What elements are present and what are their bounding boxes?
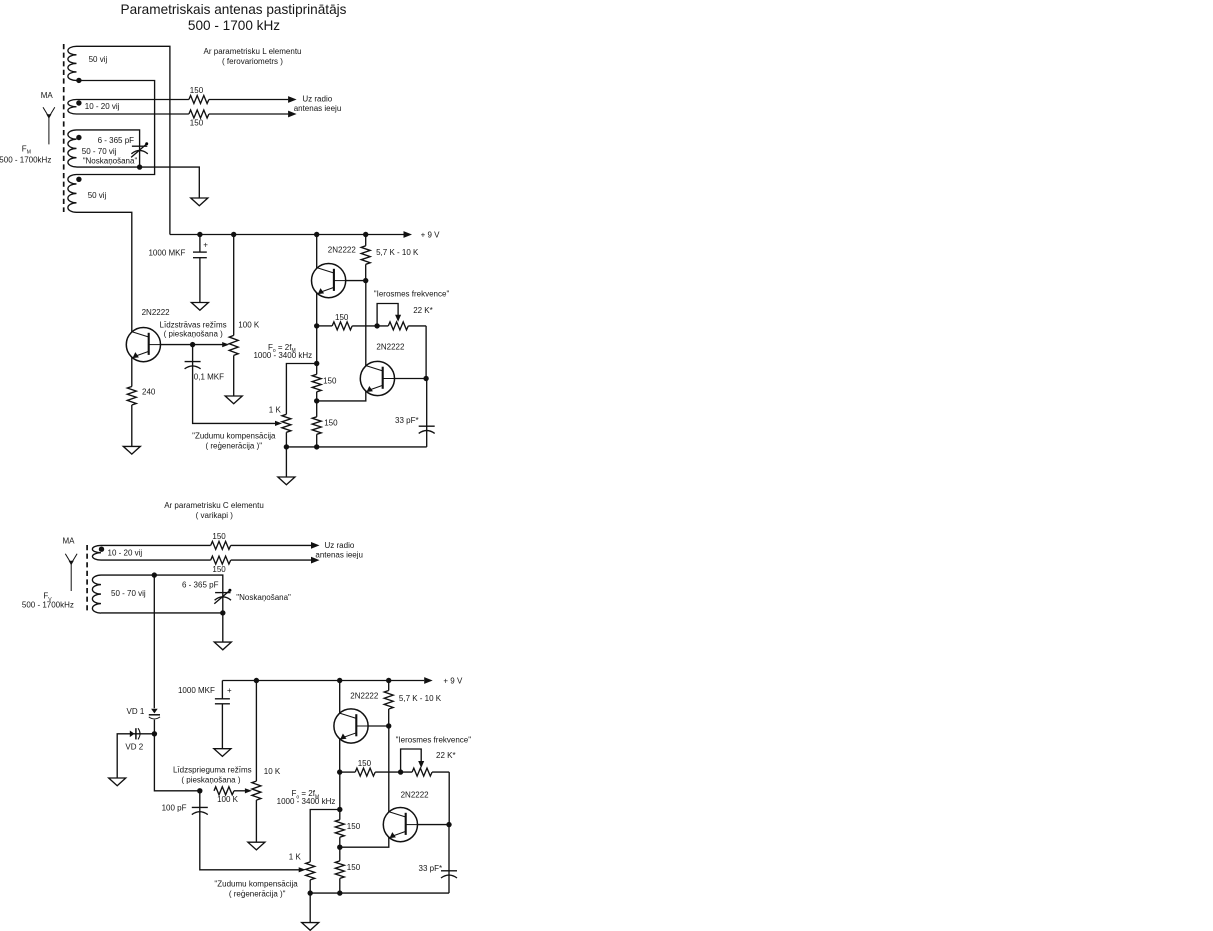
node rail/R15 — [386, 678, 391, 683]
resistor R9 150 — [312, 374, 321, 391]
wire R20 down — [339, 878, 341, 893]
wire L6 top to C5 — [101, 575, 223, 613]
node Q2 base / Q3 collector — [363, 278, 368, 283]
resistor R1 150 — [189, 96, 209, 104]
wire node to C3 — [192, 345, 194, 362]
node Q4 base / Q5 collector — [386, 723, 391, 728]
wire F0 node to R18 — [310, 810, 340, 862]
transistor Q2 2N2222 — [312, 264, 346, 298]
svg-text:500 - 1700 kHz: 500 - 1700 kHz — [188, 18, 280, 33]
capacitor C4 33pF — [419, 426, 435, 433]
wire to ground (top circuit) — [285, 447, 287, 477]
potentiometer R3 100K — [229, 335, 238, 355]
node R7 bottom — [284, 444, 289, 449]
node R18 bottom — [308, 890, 313, 895]
wire Q3 base to C4 — [426, 379, 428, 427]
svg-text:VD 2: VD 2 — [125, 743, 143, 752]
wire R9 to R10 — [316, 392, 318, 417]
wire to ground (C5) — [222, 613, 224, 642]
wire rail to R5 — [365, 235, 367, 246]
wire across R17 — [401, 771, 450, 773]
node rail/R3 — [231, 232, 236, 237]
svg-text:150: 150 — [212, 565, 226, 574]
wiper arrow R3 — [222, 342, 229, 347]
resistor R16 150 — [355, 768, 375, 776]
svg-text:50 - 70 vij: 50 - 70 vij — [111, 589, 146, 598]
wire +9V rail (top circuit) — [170, 234, 404, 236]
svg-text:0,1 MKF: 0,1 MKF — [194, 373, 224, 382]
svg-text:150: 150 — [323, 376, 337, 385]
varicap diode VD1 — [149, 709, 160, 719]
svg-text:antenas ieeju: antenas ieeju — [294, 104, 342, 113]
wire Q4 emitter down — [339, 738, 341, 772]
wire R6 to R8 — [352, 325, 377, 327]
antenna MA bottom — [65, 554, 77, 591]
node C1/L3 — [137, 164, 142, 169]
svg-text:150: 150 — [358, 759, 372, 768]
wire Q5 base to C8 — [448, 825, 450, 871]
node rail/Q2 — [314, 232, 319, 237]
svg-text:MA: MA — [41, 91, 54, 100]
svg-text:1000 - 3400 kHz: 1000 - 3400 kHz — [253, 351, 312, 360]
output arrow 3 — [311, 542, 320, 549]
node 100pF/R13 — [197, 788, 202, 793]
wire L3 top to C1 — [77, 130, 140, 167]
svg-text:2N2222: 2N2222 — [328, 245, 357, 254]
svg-text:2N2222: 2N2222 — [401, 790, 430, 799]
svg-text:Uz radio: Uz radio — [325, 541, 355, 550]
wire R14 to ground — [255, 800, 257, 842]
wire L1 top to +9V rail corner — [77, 46, 170, 234]
svg-text:"Ierosmes frekvence": "Ierosmes frekvence" — [396, 736, 472, 745]
varicap diode VD2 — [130, 728, 140, 739]
wire rail to R3 — [233, 235, 235, 336]
svg-text:500 - 1700kHz: 500 - 1700kHz — [0, 155, 51, 164]
wire L2 top to R1 — [77, 99, 189, 101]
ground (R14) — [248, 842, 265, 850]
svg-text:Ar parametrisku L elementu: Ar parametrisku L elementu — [204, 47, 302, 56]
wiper arrow R14 — [245, 788, 252, 793]
capacitor C2 1000 MKF — [193, 252, 207, 258]
phase dot L2 — [76, 100, 81, 105]
wire bottom node line (bottom circuit) — [310, 892, 449, 894]
node R10 bottom — [314, 444, 319, 449]
svg-text:50 - 70 vij: 50 - 70 vij — [82, 147, 117, 156]
svg-text:+: + — [227, 686, 232, 695]
ground (C5) — [214, 642, 231, 650]
inductor L3 winding 50-70 vij — [68, 130, 77, 167]
potentiometer R18 1K — [306, 862, 315, 880]
transformer T1 core — [63, 44, 65, 212]
svg-text:22 K*: 22 K* — [436, 751, 456, 760]
svg-text:( reģenerācija )": ( reģenerācija )" — [205, 441, 262, 450]
wire rail to R14 — [255, 681, 257, 782]
ground (C6) — [214, 749, 231, 757]
ground (R4) — [123, 446, 140, 454]
svg-text:150: 150 — [324, 419, 338, 428]
svg-text:Līdzsprieguma režīms: Līdzsprieguma režīms — [173, 766, 252, 775]
inductor L4 winding 50 vij — [68, 175, 77, 213]
variable capacitor C5 6-365pF — [214, 589, 231, 604]
node R8 left — [374, 323, 379, 328]
wire R10 down — [316, 434, 318, 447]
svg-text:Parametriskais antenas pastipr: Parametriskais antenas pastiprinātājs — [121, 2, 347, 17]
svg-text:500 - 1700kHz: 500 - 1700kHz — [22, 601, 74, 610]
node Q4 emitter — [337, 769, 342, 774]
wire to R6 — [317, 325, 333, 327]
svg-text:22 K*: 22 K* — [413, 306, 433, 315]
node F0 (bottom) — [337, 807, 342, 812]
svg-text:5,7 K - 10 K: 5,7 K - 10 K — [376, 248, 419, 257]
capacitor C3 0,1 MKF — [185, 362, 201, 369]
svg-text:150: 150 — [190, 86, 204, 95]
resistor R15 5,7K-10K — [384, 691, 393, 709]
svg-text:150: 150 — [212, 532, 226, 541]
wire rail to R15 — [388, 681, 390, 691]
resistor R10 150 — [312, 417, 321, 434]
svg-text:1000 - 3400 kHz: 1000 - 3400 kHz — [277, 797, 336, 806]
resistor R12 150 — [211, 556, 231, 564]
wire L5 bottom to R12 — [101, 559, 211, 561]
wire R3 to ground — [233, 355, 235, 396]
wire C6 to ground — [221, 704, 223, 749]
wire R15 to Q4 base node — [388, 709, 390, 726]
node rail/R5 — [363, 232, 368, 237]
wire rail to Q4 collector — [339, 681, 341, 714]
wire R1 to output arrow 1 — [209, 99, 288, 101]
wire F0 node to R7 — [286, 364, 316, 415]
wire Q5 emitter down-left — [340, 837, 389, 847]
wire C7 to R18 wiper — [200, 812, 299, 870]
node Q5 emitter — [337, 845, 342, 850]
node rail/C2 — [197, 232, 202, 237]
wire Q5 base to node — [417, 824, 449, 826]
potentiometer R8 22K — [388, 322, 408, 330]
transformer T2 core — [86, 545, 88, 614]
svg-text:2N2222: 2N2222 — [376, 343, 405, 352]
output arrow 2 — [288, 111, 297, 118]
wire rail corner to C6 — [221, 681, 223, 699]
phase dot L5 — [99, 547, 104, 552]
svg-text:( pieskaņošana ): ( pieskaņošana ) — [181, 775, 240, 784]
svg-text:"Zudumu kompensācija: "Zudumu kompensācija — [214, 879, 298, 888]
wiper arrow R7 — [275, 421, 282, 426]
resistor R5 5,7K-10K — [361, 246, 370, 265]
wire L6 to VD1 — [153, 575, 155, 708]
inductor L1 winding 50 vij — [68, 46, 77, 80]
svg-text:10 K: 10 K — [264, 767, 281, 776]
wire C3 to R7 wiper — [193, 366, 276, 424]
wire R12 to output arrow 4 — [231, 559, 312, 561]
capacitor C7 100 pF — [192, 807, 208, 814]
wire L4 bottom to Q1 collector — [77, 212, 132, 332]
svg-text:100 K: 100 K — [217, 795, 239, 804]
capacitor C8 33pF — [441, 871, 457, 878]
svg-text:50 vij: 50 vij — [89, 55, 108, 64]
wire to ground (bottom circuit) — [309, 893, 311, 923]
wire +9V rail (bottom circuit) — [222, 680, 424, 682]
node VD1/VD2 — [152, 731, 157, 736]
wire Q3 base to node — [394, 378, 426, 380]
resistor R11 150 — [211, 541, 231, 549]
wire C2 to ground — [199, 258, 201, 303]
node Q1 base — [190, 342, 195, 347]
svg-text:100 K: 100 K — [238, 321, 260, 330]
svg-text:1 K: 1 K — [269, 406, 282, 415]
svg-text:150: 150 — [347, 863, 361, 872]
ground (C1) — [191, 198, 208, 206]
wire Q3 collector up to Q2 base — [365, 281, 367, 367]
wire rail to Q2 collector — [316, 235, 318, 269]
wire R18 down — [309, 880, 311, 893]
wire R5 to Q2 base node — [365, 264, 367, 280]
svg-text:"Noskaņošana": "Noskaņošana" — [236, 593, 291, 602]
svg-text:Uz radio: Uz radio — [302, 95, 332, 104]
resistor R2 150 — [189, 110, 209, 118]
node Q3 base — [423, 376, 428, 381]
node Q3 emitter — [314, 398, 319, 403]
wire Q4 base — [368, 725, 389, 727]
svg-text:100 pF: 100 pF — [162, 804, 187, 813]
node Q2 emitter — [314, 323, 319, 328]
wire R7 down — [285, 432, 287, 447]
wiper arrow R18 — [299, 867, 306, 872]
wire L6 bottom — [101, 612, 223, 614]
svg-text:( varikapi ): ( varikapi ) — [196, 511, 234, 520]
arrow +9V (bottom) — [424, 677, 433, 684]
wire bottom node line (top circuit) — [286, 446, 426, 448]
wire C8 to bottom line — [448, 875, 450, 893]
variable capacitor C1 6-365pF — [131, 142, 148, 157]
svg-text:VD 1: VD 1 — [127, 707, 145, 716]
svg-text:( pieskaņošana ): ( pieskaņošana ) — [164, 330, 223, 339]
svg-text:2N2222: 2N2222 — [350, 692, 379, 701]
svg-text:240: 240 — [142, 387, 156, 396]
wire VD1 to node, corner to R13 — [154, 720, 199, 791]
node C5/L6 — [220, 610, 225, 615]
wire R19 to R20 — [339, 837, 341, 861]
svg-text:33 pF*: 33 pF* — [419, 864, 443, 873]
node rail/Q4 — [337, 678, 342, 683]
svg-text:( ferovariometrs ): ( ferovariometrs ) — [222, 57, 283, 66]
wire node to C7 — [199, 791, 201, 808]
resistor R20 150 — [335, 861, 344, 879]
wire R16 to R17 — [375, 771, 400, 773]
svg-text:"Zudumu kompensācija: "Zudumu kompensācija — [192, 431, 276, 440]
wire R8 wiper loop — [377, 304, 398, 326]
wire Q1 base — [160, 344, 193, 346]
output arrow 4 — [311, 557, 320, 564]
ground (R3) — [225, 396, 242, 404]
wire rail to C2 — [199, 235, 201, 253]
inductor L6 winding 50-70 vij — [92, 575, 101, 613]
wire L3 bottom to ground — [77, 167, 200, 198]
wire Q1 emitter to R4 — [131, 357, 133, 387]
potentiometer R17 22K — [412, 768, 432, 776]
svg-text:Ar parametrisku C elementu: Ar parametrisku C elementu — [164, 501, 264, 510]
wire to R9 — [316, 326, 318, 374]
wire Q2 base — [345, 280, 366, 282]
node F0 (top) — [314, 361, 319, 366]
svg-text:1000 MKF: 1000 MKF — [178, 686, 215, 695]
transistor Q4 2N2222 — [334, 709, 368, 743]
wire R11 to output arrow 3 — [231, 544, 312, 546]
wiper arrow R17 — [418, 761, 424, 768]
phase dot L4 — [76, 177, 81, 182]
potentiometer R14 10K — [252, 781, 261, 800]
resistor R4 240 — [127, 387, 136, 406]
resistor R13 100K — [214, 787, 234, 795]
wire R17 right to Q5 base — [448, 772, 450, 825]
output arrow 1 — [288, 96, 297, 103]
ground (bottom circuit) — [302, 923, 319, 931]
svg-text:33 pF*: 33 pF* — [395, 416, 419, 425]
capacitor C6 1000 MKF — [215, 699, 230, 704]
transistor Q5 2N2222 — [383, 808, 417, 842]
svg-text:"Noskaņošana": "Noskaņošana" — [83, 157, 138, 166]
svg-text:+ 9 V: + 9 V — [421, 230, 441, 239]
inductor L2 winding 10-20 vij — [68, 100, 77, 115]
svg-text:( reģenerācija )": ( reģenerācija )" — [229, 889, 286, 898]
svg-text:MA: MA — [63, 537, 76, 546]
wire C4 to bottom line — [426, 431, 428, 447]
svg-text:10 - 20 vij: 10 - 20 vij — [108, 548, 143, 557]
wire to R19 — [339, 772, 341, 820]
svg-text:50 vij: 50 vij — [88, 191, 107, 200]
potentiometer R7 1K — [282, 414, 291, 432]
phase dot L3 — [76, 135, 81, 140]
wire L1 bottom to L4 top — [77, 81, 155, 175]
svg-text:2N2222: 2N2222 — [142, 308, 171, 317]
wire R13 to R17 wiper — [234, 790, 245, 792]
svg-text:1000 MKF: 1000 MKF — [148, 248, 185, 257]
ground (C2) — [191, 303, 208, 311]
wire R17 wiper loop — [401, 749, 422, 772]
node R17 left — [398, 769, 403, 774]
svg-text:150: 150 — [347, 822, 361, 831]
svg-text:10 - 20 vij: 10 - 20 vij — [85, 102, 120, 111]
svg-text:Līdzstrāvas režīms: Līdzstrāvas režīms — [160, 321, 227, 330]
wire across R8 — [377, 325, 426, 327]
inductor L5 winding 10-20 vij — [92, 545, 101, 560]
ground (VD2) — [109, 778, 126, 786]
wire L2 bottom to R2 — [77, 113, 189, 115]
svg-text:6 - 365 pF: 6 - 365 pF — [182, 580, 219, 589]
svg-text:6 - 365 pF: 6 - 365 pF — [98, 136, 135, 145]
svg-text:"Ierosmes frekvence": "Ierosmes frekvence" — [374, 290, 450, 299]
wire R4 to ground — [131, 405, 133, 446]
ground (top circuit bottom) — [278, 477, 295, 485]
svg-text:+ 9 V: + 9 V — [443, 677, 463, 686]
wire VD2 to ground — [117, 734, 154, 778]
transistor Q3 2N2222 — [360, 361, 394, 395]
svg-text:1 K: 1 K — [289, 852, 302, 861]
resistor R6 150 — [332, 322, 352, 330]
svg-text:150: 150 — [335, 313, 349, 322]
antenna MA top — [43, 107, 55, 144]
transistor Q1 2N2222 — [126, 328, 160, 362]
wire Q3 emitter down-left — [317, 391, 366, 401]
wire L5 top to R11 — [101, 544, 211, 546]
node L6 top / VD chain — [152, 572, 157, 577]
svg-text:5,7 K - 10 K: 5,7 K - 10 K — [399, 694, 442, 703]
node rail/R14 — [254, 678, 259, 683]
wire R8 right to Q3 base — [425, 326, 427, 379]
wire Q5 collector up to Q4 base — [388, 726, 390, 812]
wire R2 to output arrow 2 — [209, 113, 288, 115]
wire Q2 emitter down — [316, 293, 318, 326]
wiper arrow R8 — [395, 315, 401, 322]
node Q5 base — [446, 822, 451, 827]
wire to R16 — [340, 771, 356, 773]
phase dot L1 — [76, 78, 81, 83]
arrow +9V (top) — [404, 231, 413, 238]
svg-text:+: + — [203, 241, 208, 250]
node R20 bottom — [337, 890, 342, 895]
wire Q1 base to R3 wiper — [193, 344, 223, 346]
svg-text:150: 150 — [190, 119, 204, 128]
svg-text:antenas ieeju: antenas ieeju — [315, 550, 363, 559]
resistor R19 150 — [335, 820, 344, 838]
